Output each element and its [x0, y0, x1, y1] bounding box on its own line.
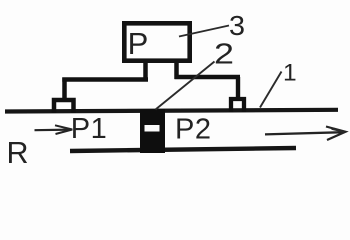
svg-text:R: R: [7, 136, 29, 170]
gauge neck right vertical: [174, 61, 179, 79]
outlet flow arrow shaft: [265, 132, 344, 134]
left impulse line drop: [62, 78, 67, 101]
inlet flow arrowhead: [55, 125, 72, 134]
left pressure tap boss: [54, 100, 74, 113]
leader line to label 2: [156, 62, 215, 110]
right impulse manifold line: [175, 75, 241, 79]
svg-text:2: 2: [214, 38, 234, 70]
inlet flow arrow shaft: [35, 129, 72, 132]
right pressure tap boss: [231, 99, 244, 112]
svg-text:1: 1: [283, 60, 297, 87]
outlet arrowhead inner barb: [332, 129, 345, 132]
pipe top wall line 1: [5, 110, 338, 112]
pipe bottom wall line: [70, 148, 296, 151]
gauge neck left vertical: [143, 61, 148, 81]
svg-text:3: 3: [229, 10, 245, 41]
svg-text:P1: P1: [71, 113, 107, 145]
left impulse manifold line: [62, 77, 148, 82]
orifice plate 2 (black block): [140, 109, 165, 153]
right impulse line drop: [236, 77, 240, 99]
svg-text:P2: P2: [175, 113, 211, 145]
leader line to label 3: [179, 26, 229, 37]
outlet flow arrowhead: [326, 127, 346, 141]
orifice bore (white slot): [145, 125, 160, 132]
leader line to label 1: [260, 72, 282, 108]
svg-text:P: P: [128, 26, 149, 61]
pressure gauge box 3: [124, 23, 189, 60]
